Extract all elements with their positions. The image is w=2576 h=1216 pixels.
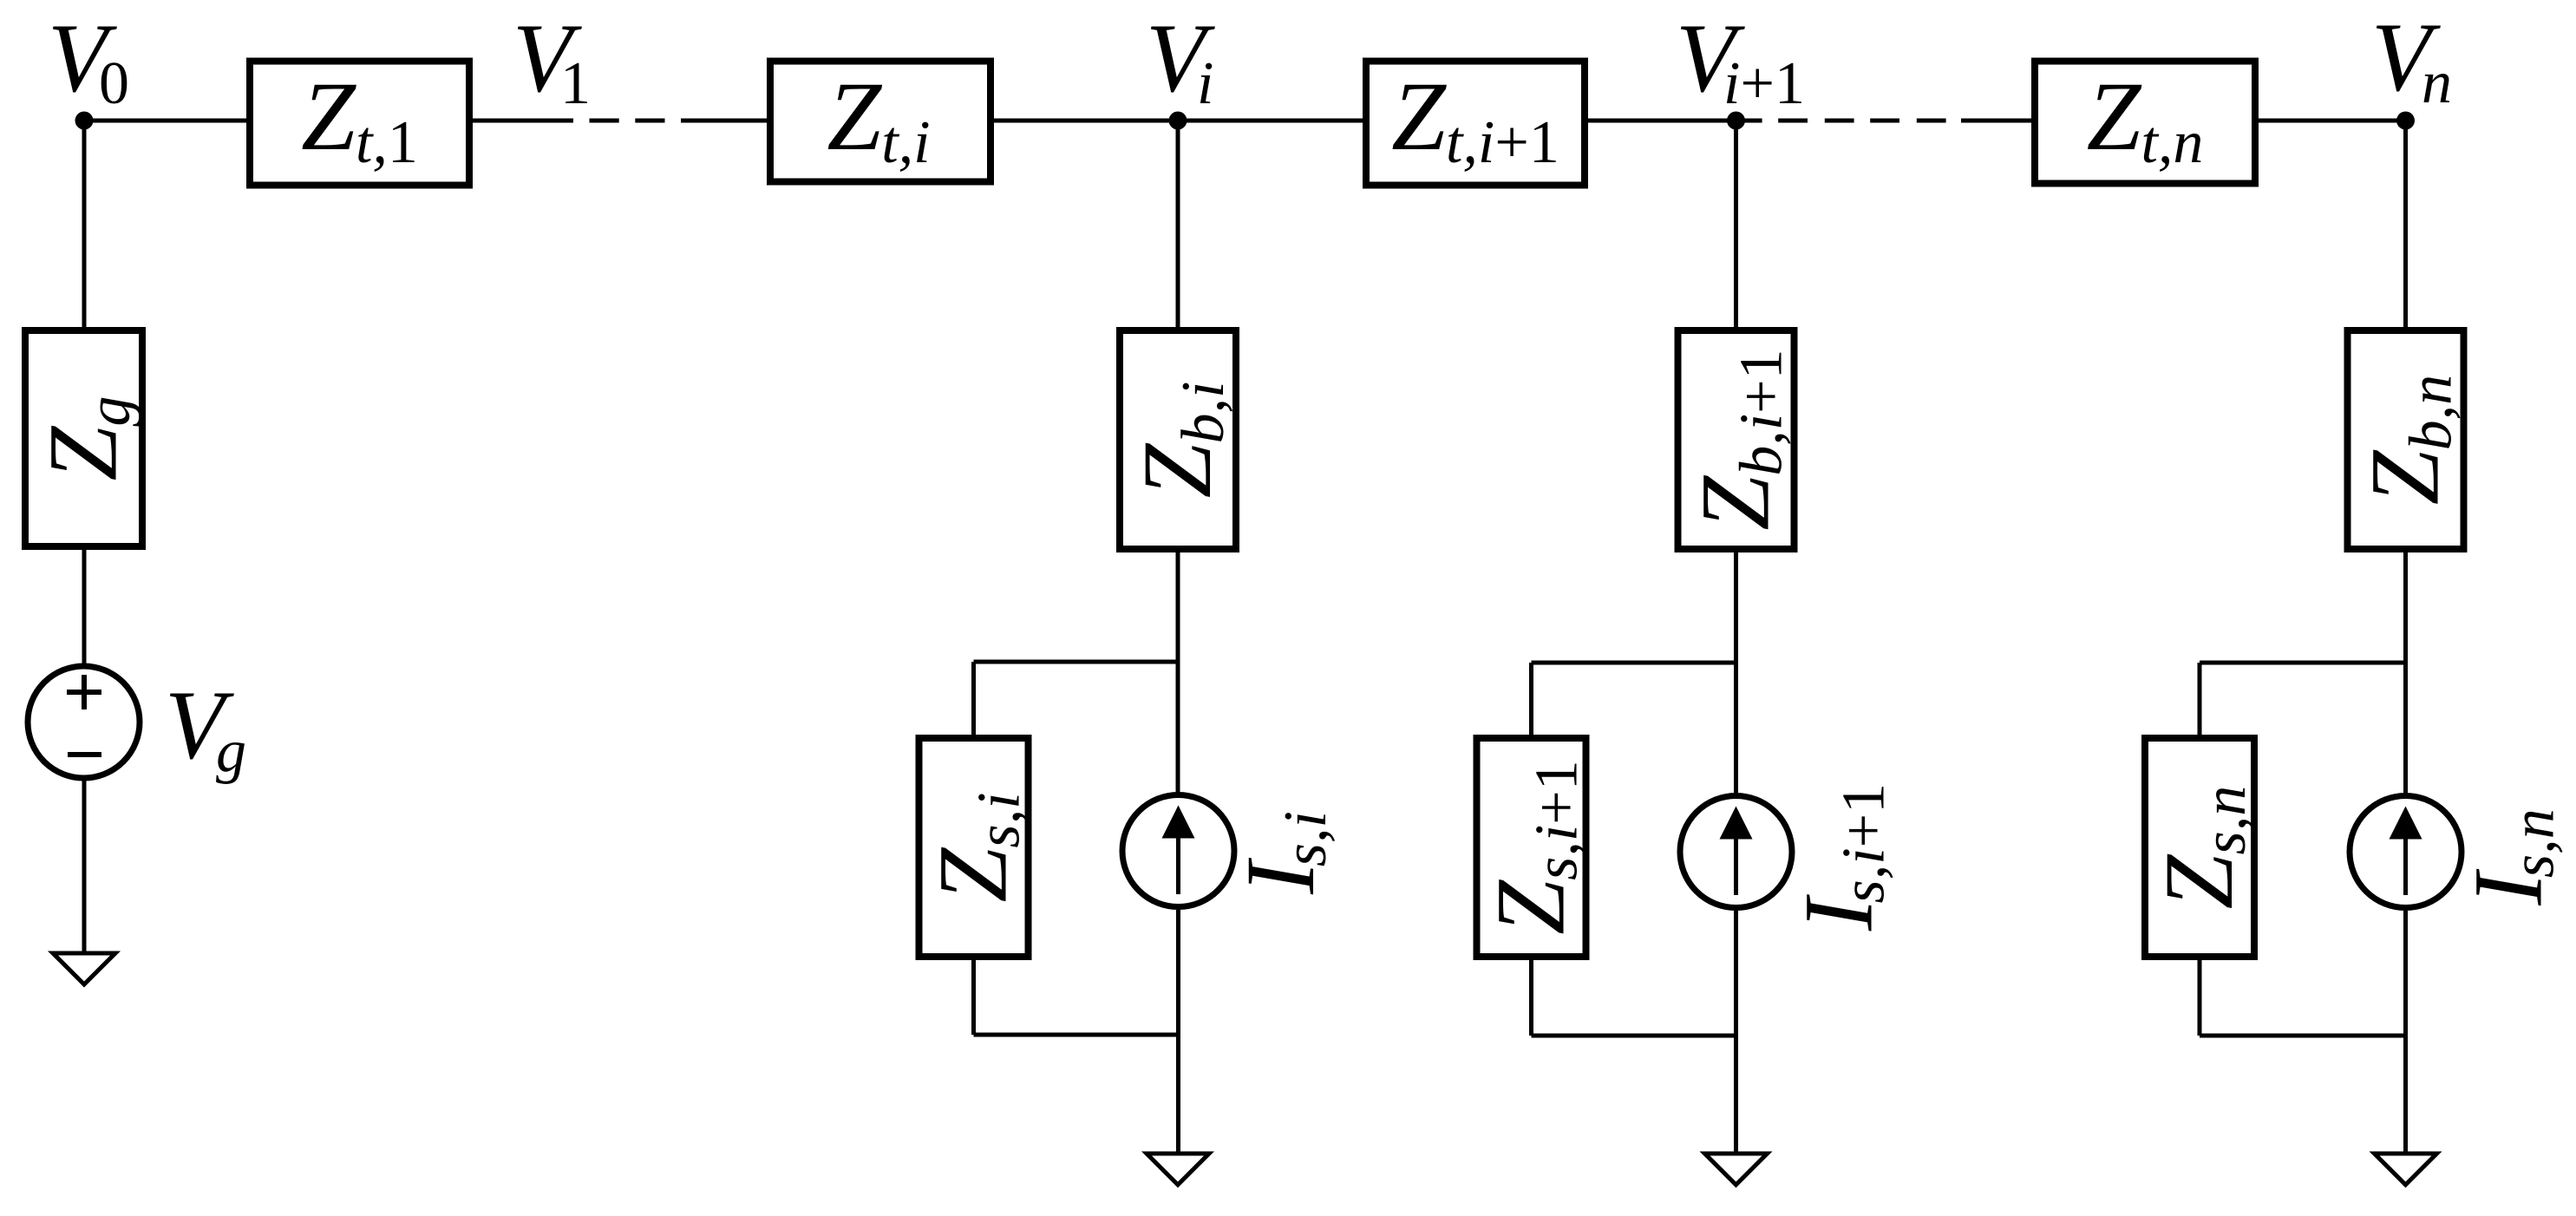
wire loop bottom n (2200, 1034, 2406, 1038)
current source Is,i (1122, 795, 1234, 907)
wire loop left lower i (971, 957, 976, 1035)
wire Vi to Zb,i (1176, 121, 1180, 330)
resistor Zg (25, 330, 142, 546)
node Vn (2396, 112, 2415, 130)
dashed wire Vn link (1917, 119, 1946, 123)
dashed wire V1 link (590, 119, 619, 123)
wire loop bottom i (974, 1033, 1179, 1037)
wire Zt,1 to dashes (473, 119, 573, 123)
wire loop left upper n (2198, 663, 2202, 738)
ground (1147, 1154, 1209, 1185)
wire Zt,n to Vn (2259, 119, 2406, 123)
wire loop left lower n (2198, 957, 2202, 1036)
wire Is,n to ground (2403, 911, 2408, 1154)
ground (53, 953, 115, 984)
dashed wire Vn link (1778, 119, 1808, 123)
wire dashes to Zt,n (1961, 119, 2035, 123)
wire Zg to Vg (82, 546, 87, 666)
arrow shaft Is,i+1 (1734, 835, 1738, 895)
arrow head Is,i (1162, 806, 1195, 839)
arrow head Is,i+1 (1720, 807, 1753, 840)
dashed wire Vn link (1825, 119, 1854, 123)
ground (1705, 1154, 1768, 1185)
wire Vn to Zb,n (2403, 121, 2408, 330)
plus sign (67, 675, 101, 709)
wire loop left upper i (971, 662, 976, 738)
wire Zb,i+1 to Is,i+1 (1734, 549, 1738, 796)
wire Zb,i to Is,i (1176, 549, 1180, 795)
wire dashes to Zt,i (681, 119, 770, 123)
wire Zb,n to Is,n (2403, 549, 2408, 796)
wire Is,i+1 to ground (1734, 911, 1738, 1154)
arrow shaft Is,n (2403, 835, 2408, 895)
wire V0 to Zt,1 (84, 119, 250, 123)
resistor Zs,i+1 (1477, 738, 1586, 957)
svg-text:Vi: Vi (1146, 4, 1215, 117)
wire Vi+1 to Zb,i+1 (1734, 121, 1738, 330)
ground (2375, 1154, 2437, 1185)
resistor Zt,n (2035, 62, 2255, 184)
voltage source Vg (28, 666, 140, 778)
wire loop top n (2200, 661, 2406, 665)
resistor Zt,1 (250, 62, 469, 186)
wire loop left upper i+1 (1529, 663, 1533, 738)
wire Zt,i+1 to Vi+1 (1588, 119, 1736, 123)
wire Vg to ground (82, 778, 87, 953)
resistor Zb,n (2348, 330, 2464, 549)
minus sign (68, 752, 101, 757)
resistor Zb,i+1 (1678, 330, 1795, 549)
current source Is,n (2350, 796, 2462, 908)
node V0 (75, 112, 94, 130)
dashed wire Vn link (1870, 119, 1899, 123)
wire loop left lower i+1 (1529, 957, 1533, 1036)
resistor Zs,n (2145, 738, 2254, 957)
current source Is,i+1 (1680, 796, 1792, 908)
resistor Zs,i (919, 738, 1029, 957)
wire loop top i (974, 660, 1179, 664)
node Vi (1169, 112, 1187, 130)
wire V0 to Zg (82, 121, 87, 330)
wire Vi+1 to dashes (1736, 119, 1762, 123)
wire loop bottom i+1 (1532, 1034, 1736, 1038)
node Vi+1 (1727, 112, 1745, 130)
dashed wire V1 link (635, 119, 664, 123)
wire Zt,i to Vi (994, 119, 1363, 123)
arrow shaft Is,i (1176, 834, 1180, 894)
resistor Zt,i+1 (1366, 62, 1585, 186)
resistor Zb,i (1120, 330, 1236, 549)
resistor Zt,i (770, 62, 991, 182)
arrow head Is,n (2390, 807, 2422, 840)
wire Is,i to ground (1176, 910, 1180, 1154)
wire loop top i+1 (1532, 661, 1736, 665)
